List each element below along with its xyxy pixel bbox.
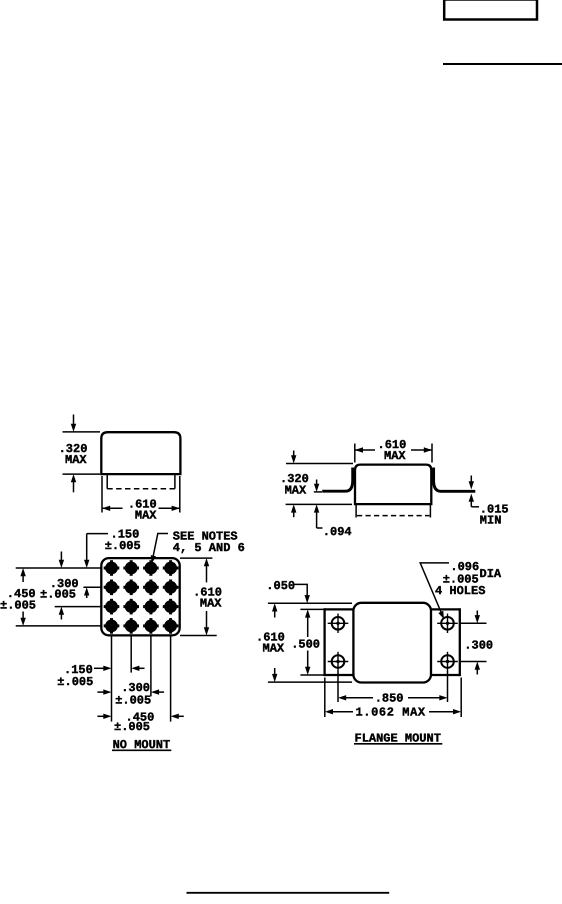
svg-text:MAX: MAX <box>384 449 406 463</box>
svg-text:.050: .050 <box>266 579 295 593</box>
svg-text:.850: .850 <box>375 691 404 705</box>
dim .450 left upper arrow <box>22 571 24 582</box>
footer rule line <box>187 892 390 894</box>
dim .094 upper arrow <box>316 480 318 489</box>
dim .150 bottom right arrow <box>138 667 145 669</box>
hole column left extension line <box>337 671 339 702</box>
dim .150 bracket line <box>87 533 108 535</box>
view B hidden base left line <box>355 505 357 518</box>
svg-text:.500: .500 <box>291 638 320 652</box>
dim .300 flange top extension line <box>459 622 487 624</box>
dim .094 leader foot <box>317 527 323 529</box>
svg-text:4 HOLES: 4 HOLES <box>435 584 485 598</box>
dim 1.062 right extension line <box>460 678 462 718</box>
hole top right <box>437 614 458 633</box>
pin D1 <box>104 618 120 634</box>
dim .610 right upper arrow <box>206 562 208 583</box>
view A hidden base left line <box>106 474 108 489</box>
svg-text:±.005: ±.005 <box>57 675 93 689</box>
dim .050 leader <box>294 584 307 596</box>
dim 1.062 right arrow <box>429 711 455 713</box>
view D left tab left edge <box>323 608 325 676</box>
pin C1 <box>104 599 120 615</box>
dim .300 left lower arrow <box>60 610 62 620</box>
dim .015 lower arrow and leader <box>470 497 472 507</box>
view D body outline <box>353 603 431 683</box>
pin A1 <box>104 560 120 576</box>
column 2 extension line <box>130 637 132 673</box>
view D flange-top extension line <box>300 608 323 610</box>
dim .150 lower arrow <box>86 591 88 598</box>
view B body outline <box>355 465 431 505</box>
svg-text:1.062 MAX: 1.062 MAX <box>356 706 426 720</box>
header rule line <box>443 63 562 65</box>
dim .320 right lower arrow <box>293 508 295 517</box>
svg-text:±.005: ±.005 <box>115 693 151 707</box>
view D right tab right edge <box>459 608 461 676</box>
view B body-top extension line <box>286 463 353 465</box>
svg-text:MIN: MIN <box>480 513 502 527</box>
dim .500 lower arrow <box>307 651 309 672</box>
view D body-bottom extension line <box>268 681 352 683</box>
svg-text:.300: .300 <box>464 639 493 653</box>
svg-text:.094: .094 <box>323 525 352 539</box>
title block box top right <box>444 0 537 20</box>
svg-text:±.005: ±.005 <box>114 720 150 734</box>
dim .320 lower arrow <box>73 478 75 492</box>
row 1 extension line <box>16 567 101 569</box>
pin B1 <box>104 580 120 596</box>
dim .610 right lower arrow <box>206 611 208 632</box>
view B right lead <box>434 468 476 492</box>
dim .610 flange lower arrow <box>274 668 276 679</box>
pin A3 <box>143 560 159 576</box>
hole column right extension line <box>447 671 449 702</box>
svg-text:±.005: ±.005 <box>40 588 76 602</box>
dim .150 bottom left arrow <box>94 667 104 669</box>
dim 1.062 left extension line <box>324 678 326 718</box>
dim .450 bottom right arrow <box>177 715 184 717</box>
dim .450 left lower arrow <box>22 612 24 623</box>
svg-text:±.005: ±.005 <box>0 598 36 612</box>
hole top left <box>328 614 349 633</box>
svg-text:DIA: DIA <box>480 567 502 581</box>
dim .610 top left arrow <box>355 449 375 451</box>
dim .610 top left extension line <box>354 444 356 463</box>
dim .850 left arrow <box>345 697 373 699</box>
view D flange-bottom extension line <box>300 674 323 676</box>
view B hidden base dashed line <box>357 515 430 517</box>
dim .610 right arrow <box>159 507 180 509</box>
svg-text:MAX: MAX <box>135 509 157 523</box>
dim .610 left arrow <box>102 507 123 509</box>
hole bottom right <box>437 652 458 671</box>
svg-text:4, 5 AND 6: 4, 5 AND 6 <box>173 541 245 555</box>
dim .300 flange upper arrow <box>476 611 478 621</box>
pin B4 <box>163 580 179 596</box>
pin D4 <box>163 618 179 634</box>
row 2 extension line <box>83 586 101 588</box>
pin D3 <box>143 618 159 634</box>
dim .500 upper arrow <box>307 613 309 637</box>
column 3 extension line <box>150 637 152 697</box>
dim .015 upper arrow <box>470 476 472 487</box>
pin A2 <box>123 560 139 576</box>
dim .300 bottom left arrow <box>97 691 104 693</box>
pin A4 <box>163 560 179 576</box>
svg-text:MAX: MAX <box>200 597 222 611</box>
view D title underline <box>354 743 442 745</box>
dim .094 lead-top extension tick <box>314 491 322 493</box>
dim .015 leader foot <box>471 506 479 508</box>
dim .320 right upper arrow <box>293 451 295 461</box>
dim .850 right arrow <box>408 697 441 699</box>
dim .610 right extension line <box>179 476 181 513</box>
dim .300 flange lower arrow <box>476 665 478 675</box>
row 4 extension line <box>16 625 101 627</box>
pin C2 <box>123 599 139 615</box>
pin D2 <box>123 618 139 634</box>
dim .300 left upper arrow <box>60 552 62 565</box>
view D left tab bottom edge <box>325 674 354 676</box>
view D body-top extension line <box>268 602 352 604</box>
pin C3 <box>143 599 159 615</box>
dim .150 top arrow <box>86 534 88 565</box>
dim .610 top right extension line <box>431 444 433 463</box>
view C body outline <box>101 558 179 635</box>
view A hidden base right line <box>174 474 176 489</box>
svg-text:MAX: MAX <box>285 484 307 498</box>
dim .320 upper arrow <box>73 415 75 429</box>
view B left lead <box>322 468 353 492</box>
dim .610 flange upper arrow <box>274 607 276 618</box>
view A hidden base dashed line <box>107 488 175 490</box>
dim 1.062 left arrow <box>331 711 353 713</box>
pin B2 <box>123 580 139 596</box>
see notes leader <box>153 534 168 559</box>
svg-text:MAX: MAX <box>65 453 87 467</box>
svg-text:±.005: ±.005 <box>105 539 141 553</box>
view C title underline <box>112 749 171 751</box>
view B seating extension line <box>286 503 352 505</box>
dim .300 bottom right arrow <box>158 691 165 693</box>
view D right tab top edge <box>430 608 459 610</box>
dim .610 left extension line <box>101 476 103 513</box>
dim .300 flange bottom extension line <box>459 661 487 663</box>
dim .094 lower arrow and leader <box>316 508 318 528</box>
column 4 extension line <box>170 637 172 722</box>
dim .610 top right arrow <box>411 449 432 451</box>
dim .610 right bottom extension line <box>180 635 217 637</box>
view A top extension line <box>63 431 101 433</box>
dim .450 bottom left arrow <box>97 715 104 717</box>
hole bottom left <box>328 652 349 671</box>
row 3 extension line <box>55 606 101 608</box>
view B hidden base right line <box>429 505 431 518</box>
view A bottom extension line <box>63 473 101 475</box>
column 1 extension line <box>111 637 113 722</box>
view D right tab bottom edge <box>430 674 459 676</box>
svg-text:MAX: MAX <box>263 642 285 656</box>
pin C4 <box>163 599 179 615</box>
dim .096 leader <box>420 563 449 613</box>
dim .610 right top extension line <box>180 557 212 559</box>
pin B3 <box>143 580 159 596</box>
view D left tab top edge <box>325 608 354 610</box>
view A body outline <box>101 432 180 474</box>
